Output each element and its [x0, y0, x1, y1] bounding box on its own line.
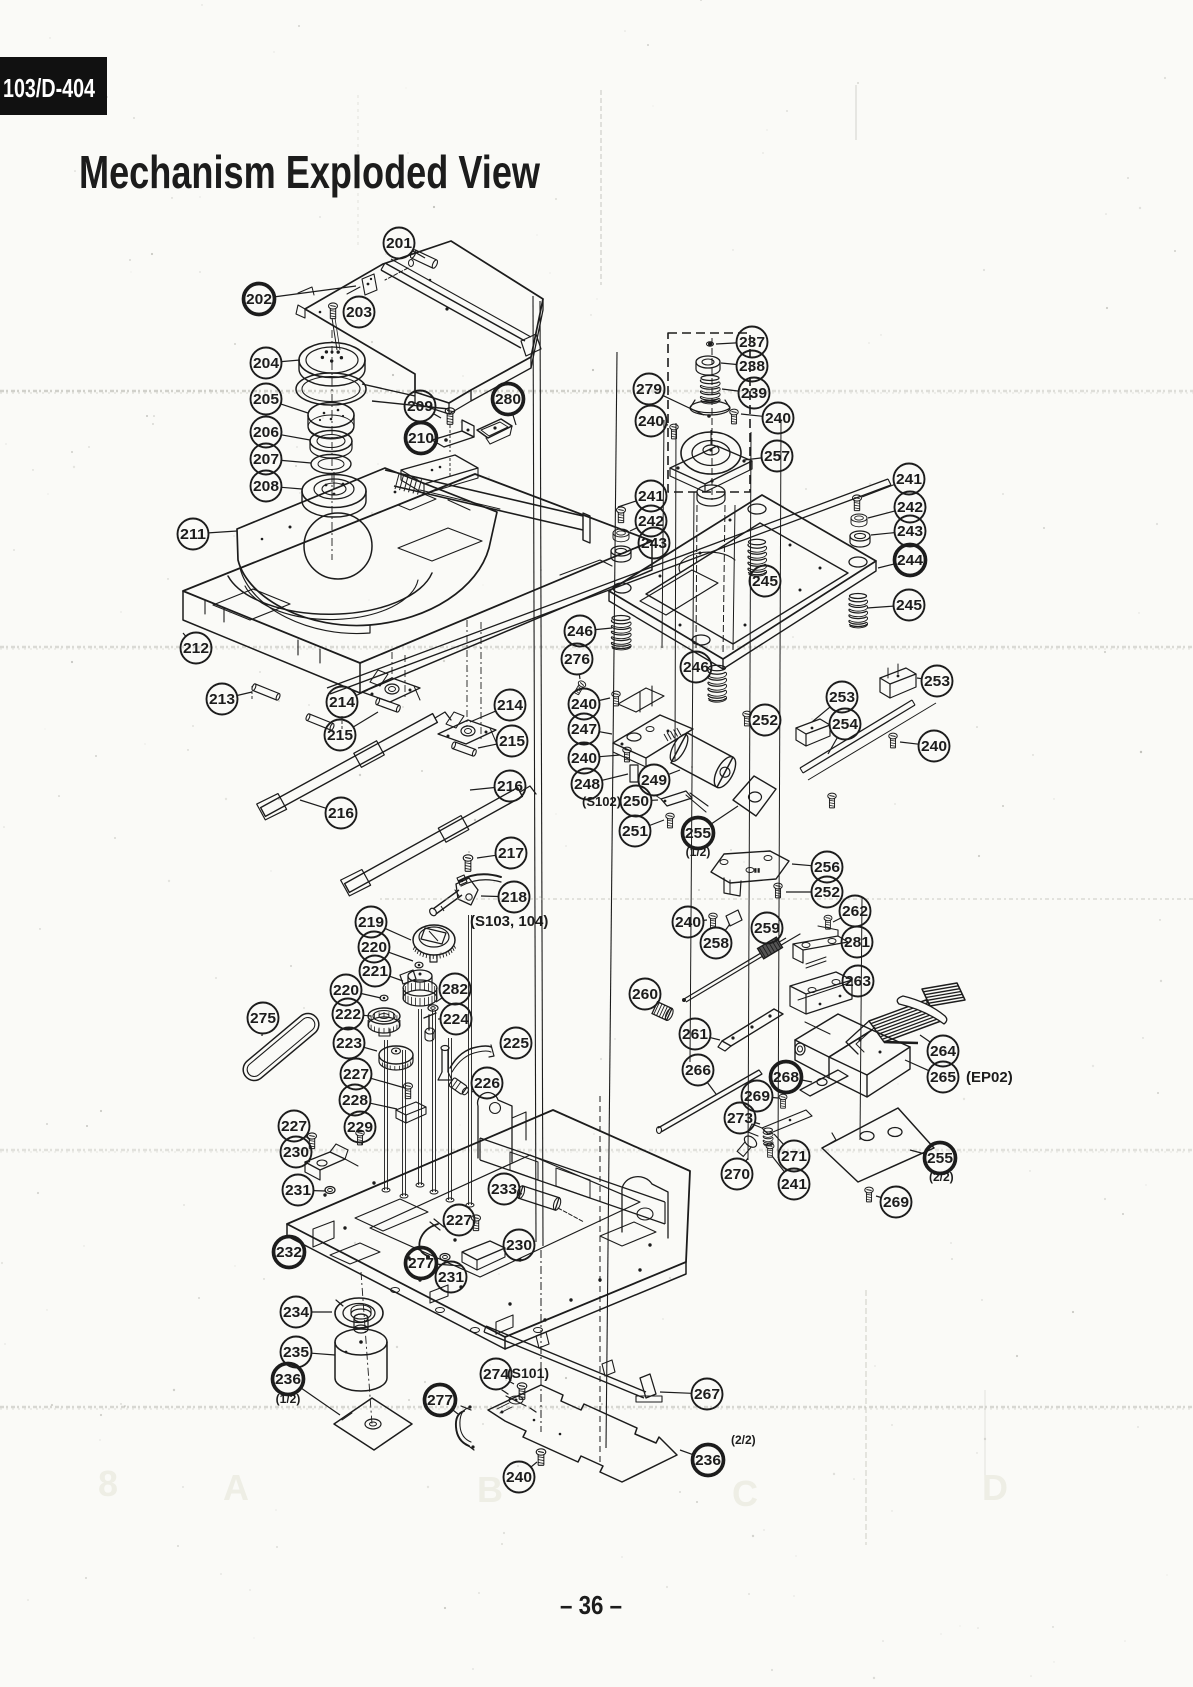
- svg-text:243: 243: [897, 523, 923, 540]
- svg-text:235: 235: [283, 1344, 309, 1361]
- svg-text:213: 213: [209, 691, 235, 708]
- svg-text:269: 269: [883, 1194, 909, 1211]
- svg-text:251: 251: [622, 823, 648, 840]
- svg-text:237: 237: [739, 334, 765, 351]
- svg-text:236: 236: [275, 1371, 301, 1388]
- svg-text:207: 207: [253, 451, 279, 468]
- svg-text:Mechanism Exploded View: Mechanism Exploded View: [79, 146, 540, 198]
- svg-text:(S102): (S102): [582, 794, 621, 809]
- svg-text:224: 224: [443, 1011, 470, 1028]
- svg-text:270: 270: [724, 1166, 750, 1183]
- svg-text:262: 262: [842, 903, 868, 920]
- svg-text:209: 209: [407, 398, 433, 415]
- svg-text:215: 215: [499, 733, 525, 750]
- svg-text:234: 234: [283, 1304, 310, 1321]
- svg-text:266: 266: [685, 1062, 711, 1079]
- svg-text:D: D: [982, 1467, 1008, 1508]
- svg-text:240: 240: [638, 413, 664, 430]
- svg-text:214: 214: [329, 694, 356, 711]
- svg-text:227: 227: [446, 1212, 472, 1229]
- svg-text:204: 204: [253, 355, 280, 372]
- svg-text:219: 219: [358, 914, 384, 931]
- svg-text:267: 267: [694, 1386, 720, 1403]
- svg-text:231: 231: [285, 1182, 311, 1199]
- svg-text:(2/2): (2/2): [731, 1433, 756, 1447]
- svg-text:277: 277: [427, 1392, 453, 1409]
- svg-text:218: 218: [501, 889, 527, 906]
- svg-text:233: 233: [491, 1181, 517, 1198]
- svg-text:202: 202: [246, 291, 272, 308]
- svg-text:243: 243: [641, 535, 667, 552]
- svg-text:206: 206: [253, 424, 279, 441]
- svg-text:252: 252: [752, 712, 778, 729]
- svg-text:248: 248: [574, 776, 600, 793]
- svg-text:221: 221: [362, 963, 388, 980]
- svg-text:(1/2): (1/2): [686, 845, 711, 859]
- svg-text:217: 217: [498, 845, 524, 862]
- svg-text:238: 238: [739, 358, 765, 375]
- svg-text:216: 216: [497, 778, 523, 795]
- svg-text:255: 255: [927, 1150, 953, 1167]
- svg-text:245: 245: [896, 597, 922, 614]
- svg-text:232: 232: [276, 1244, 302, 1261]
- svg-text:8: 8: [98, 1463, 118, 1504]
- svg-text:273: 273: [727, 1110, 753, 1127]
- svg-text:241: 241: [781, 1176, 807, 1193]
- svg-text:241: 241: [638, 488, 664, 505]
- svg-text:208: 208: [253, 478, 279, 495]
- svg-text:223: 223: [336, 1035, 362, 1052]
- svg-text:259: 259: [754, 920, 780, 937]
- svg-text:257: 257: [764, 448, 790, 465]
- svg-text:236: 236: [695, 1452, 721, 1469]
- svg-text:261: 261: [682, 1026, 708, 1043]
- svg-text:279: 279: [636, 381, 662, 398]
- svg-text:(S103, 104): (S103, 104): [470, 913, 548, 930]
- svg-text:246: 246: [567, 623, 593, 640]
- svg-text:B: B: [477, 1469, 503, 1510]
- svg-text:230: 230: [283, 1144, 309, 1161]
- svg-text:240: 240: [506, 1469, 532, 1486]
- svg-text:215: 215: [327, 727, 353, 744]
- svg-text:242: 242: [897, 499, 923, 516]
- svg-text:212: 212: [183, 640, 209, 657]
- svg-text:252: 252: [814, 884, 840, 901]
- svg-text:214: 214: [497, 697, 524, 714]
- svg-text:246: 246: [683, 659, 709, 676]
- svg-text:240: 240: [921, 738, 947, 755]
- svg-text:240: 240: [675, 914, 701, 931]
- svg-text:281: 281: [844, 934, 870, 951]
- svg-text:244: 244: [897, 552, 924, 569]
- svg-text:253: 253: [924, 673, 950, 690]
- svg-text:239: 239: [741, 385, 767, 402]
- svg-text:211: 211: [180, 526, 206, 543]
- svg-text:271: 271: [781, 1148, 807, 1165]
- svg-text:258: 258: [703, 935, 729, 952]
- svg-text:216: 216: [328, 805, 354, 822]
- svg-text:249: 249: [641, 772, 667, 789]
- svg-text:265: 265: [930, 1069, 956, 1086]
- svg-text:253: 253: [829, 689, 855, 706]
- svg-text:254: 254: [832, 716, 859, 733]
- svg-text:260: 260: [632, 986, 658, 1003]
- svg-text:(1/2): (1/2): [276, 1392, 301, 1406]
- svg-text:103/D-404: 103/D-404: [3, 73, 95, 103]
- svg-text:255: 255: [685, 825, 711, 842]
- svg-text:268: 268: [773, 1069, 799, 1086]
- svg-text:220: 220: [333, 982, 359, 999]
- svg-text:A: A: [223, 1467, 249, 1508]
- svg-text:– 36 –: – 36 –: [560, 1590, 622, 1620]
- svg-text:220: 220: [361, 939, 387, 956]
- svg-text:256: 256: [814, 859, 840, 876]
- svg-text:282: 282: [442, 981, 468, 998]
- svg-text:203: 203: [346, 304, 372, 321]
- svg-text:240: 240: [765, 410, 791, 427]
- svg-text:229: 229: [347, 1119, 373, 1136]
- svg-text:205: 205: [253, 391, 279, 408]
- svg-text:201: 201: [386, 235, 412, 252]
- svg-text:274: 274: [483, 1366, 510, 1383]
- svg-text:250: 250: [623, 793, 649, 810]
- svg-text:226: 226: [474, 1075, 500, 1092]
- svg-text:(S101): (S101): [507, 1365, 549, 1381]
- svg-text:241: 241: [896, 471, 922, 488]
- svg-text:(EP02): (EP02): [966, 1069, 1013, 1086]
- svg-text:230: 230: [506, 1237, 532, 1254]
- svg-text:(2/2): (2/2): [929, 1170, 954, 1184]
- svg-text:269: 269: [744, 1088, 770, 1105]
- svg-text:228: 228: [342, 1092, 368, 1109]
- svg-text:264: 264: [930, 1043, 957, 1060]
- svg-text:222: 222: [335, 1006, 361, 1023]
- svg-text:C: C: [732, 1473, 758, 1514]
- svg-text:277: 277: [408, 1255, 434, 1272]
- svg-text:263: 263: [845, 973, 871, 990]
- svg-text:240: 240: [571, 696, 597, 713]
- svg-text:▮▮: ▮▮: [754, 868, 761, 874]
- svg-text:225: 225: [503, 1035, 529, 1052]
- svg-text:280: 280: [495, 391, 521, 408]
- svg-text:245: 245: [752, 573, 778, 590]
- svg-text:227: 227: [343, 1066, 369, 1083]
- svg-text:275: 275: [250, 1010, 276, 1027]
- svg-text:227: 227: [281, 1118, 307, 1135]
- svg-text:247: 247: [571, 721, 597, 738]
- svg-text:210: 210: [408, 430, 434, 447]
- svg-text:231: 231: [438, 1269, 464, 1286]
- svg-text:276: 276: [564, 651, 590, 668]
- svg-text:240: 240: [571, 750, 597, 767]
